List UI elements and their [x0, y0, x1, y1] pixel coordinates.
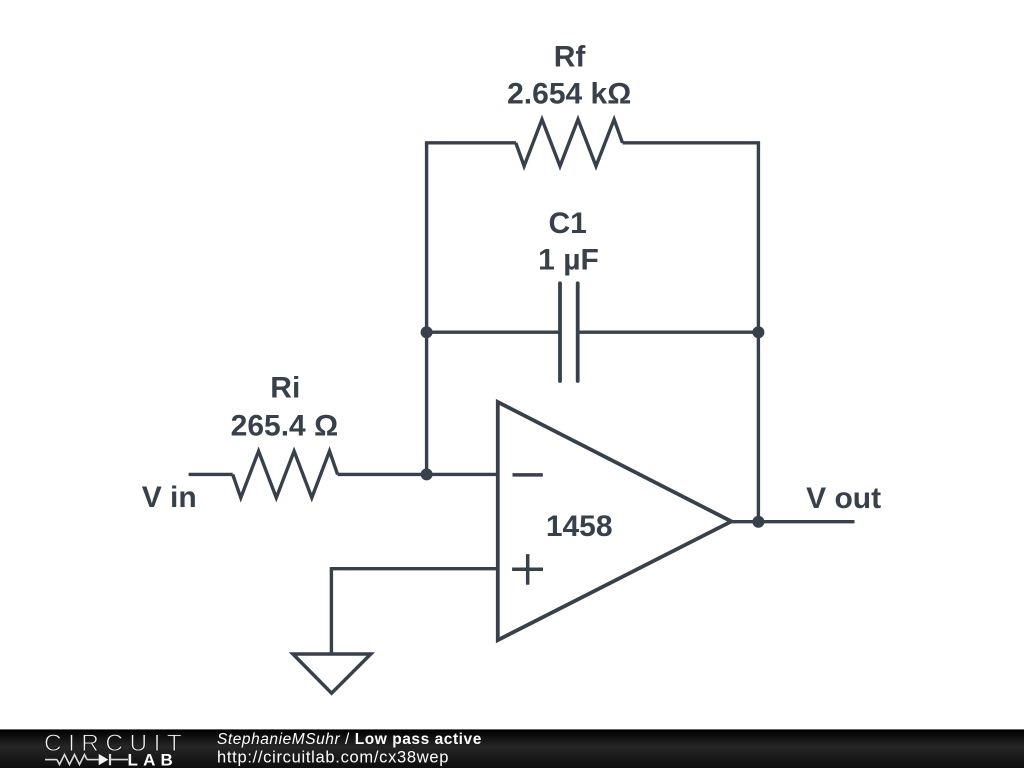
- ground: [293, 654, 371, 693]
- resistor Rf: [516, 119, 623, 166]
- wire: V in lead: [189, 473, 233, 476]
- op-amp plus input symbol: [512, 554, 543, 585]
- wire: C1 left horizontal: [427, 331, 560, 334]
- wire: feedback loop left vertical: [425, 143, 428, 475]
- wire: output: [731, 520, 854, 523]
- wire: Ri to op-amp inverting input: [338, 473, 498, 476]
- op-amp U1 triangle: [498, 402, 732, 640]
- svg-text:2.654 kΩ: 2.654 kΩ: [507, 78, 631, 111]
- op-amp minus input symbol: [513, 473, 543, 477]
- logo circuit line with resistor and diode: [45, 754, 128, 765]
- svg-text:1458: 1458: [546, 510, 613, 543]
- node: junction dot inverting input: [421, 468, 433, 480]
- wire: feedback top left horizontal: [425, 141, 516, 144]
- svg-text:C1: C1: [549, 207, 587, 240]
- resistor Ri: [233, 451, 338, 498]
- footer bar: [0, 729, 1024, 768]
- svg-text:265.4 Ω: 265.4 Ω: [231, 409, 338, 442]
- wire: non-inverting input vertical to ground: [330, 567, 333, 654]
- node: junction dot right C1: [752, 326, 764, 338]
- svg-text:LAB: LAB: [128, 751, 179, 768]
- svg-text:StephanieMSuhr / Low pass acti: StephanieMSuhr / Low pass active: [217, 731, 482, 748]
- wire: feedback right vertical: [757, 143, 760, 522]
- svg-text:V in: V in: [142, 481, 197, 514]
- svg-text:http://circuitlab.com/cx38wep: http://circuitlab.com/cx38wep: [217, 749, 449, 767]
- svg-text:V out: V out: [806, 482, 881, 515]
- node: junction dot output: [752, 516, 764, 528]
- wire: non-inverting input horizontal: [331, 567, 497, 570]
- svg-text:Ri: Ri: [270, 372, 300, 405]
- node: junction dot left C1: [421, 326, 433, 338]
- wire: feedback top right horizontal: [623, 141, 761, 144]
- svg-text:1 µF: 1 µF: [538, 244, 599, 277]
- wire: C1 right horizontal: [578, 331, 759, 334]
- svg-text:Rf: Rf: [554, 41, 587, 74]
- capacitor C1: [560, 283, 578, 381]
